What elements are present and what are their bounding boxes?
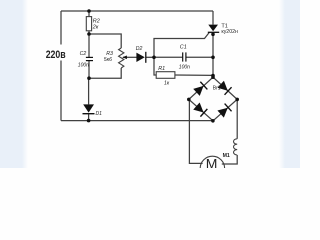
- svg-text:R1: R1: [158, 66, 165, 72]
- svg-text:100n: 100n: [78, 62, 89, 68]
- junction node bridge left vertex: [187, 98, 191, 102]
- junction node C1 / cathode line: [211, 56, 215, 60]
- junction node D1 / bottom rail: [87, 119, 91, 123]
- wire T1 anode from top rail: [212, 11, 214, 25]
- bridge diode top-to-right: [217, 80, 231, 94]
- svg-text:ку202н: ку202н: [221, 29, 238, 35]
- bridge Br1 diamond wires: [189, 77, 237, 121]
- svg-text:C1: C1: [180, 45, 187, 51]
- capacitor C1: [179, 45, 190, 71]
- wire T1 cathode to bridge top: [212, 32, 214, 77]
- wire R1 left lead: [154, 57, 156, 75]
- wire R2 bottom lead: [88, 31, 90, 34]
- junction node bridge right vertex: [235, 98, 239, 102]
- wire gate lead to T1: [154, 32, 209, 57]
- junction node bridge top vertex: [211, 75, 215, 79]
- junction node R2 / C2 / R3: [87, 32, 91, 36]
- wire R2 top lead: [88, 11, 90, 17]
- resistor R1: [156, 66, 175, 87]
- junction node T1 cathode: [211, 33, 215, 37]
- choke winding of motor M1: [233, 139, 237, 155]
- svg-text:5к6: 5к6: [104, 57, 112, 63]
- wire R3 bottom lead: [89, 68, 121, 78]
- junction node gate G: [152, 56, 156, 60]
- wire D1 bottom lead: [88, 114, 90, 121]
- wire C1 right lead: [186, 56, 213, 58]
- svg-text:2к: 2к: [92, 25, 99, 31]
- svg-text:C2: C2: [80, 51, 87, 57]
- svg-text:1к: 1к: [164, 81, 170, 87]
- wire left side 220V lower: [60, 61, 62, 121]
- wire R3 wiper to D2 anode: [123, 56, 137, 58]
- wire left side 220V upper: [60, 11, 62, 45]
- diode D1: [83, 104, 103, 117]
- wire D1 top lead: [88, 78, 90, 104]
- svg-text:M1: M1: [223, 153, 230, 159]
- wire bridge right vertex down to choke: [236, 99, 238, 138]
- bridge diode left-to-bottom: [193, 102, 207, 116]
- wire D2 cathode to node G: [146, 56, 154, 58]
- wire bridge left vertex down to motor: [189, 99, 202, 163]
- motor M1: [200, 153, 230, 180]
- bridge diode bottom-to-right: [217, 104, 231, 118]
- svg-text:D1: D1: [96, 111, 103, 117]
- capacitor C2: [78, 51, 93, 68]
- junction node C2 / R3 bottom: [87, 76, 91, 80]
- wire bottom rail: [61, 120, 213, 122]
- wire choke to motor right: [222, 155, 237, 164]
- svg-text:Br1: Br1: [213, 86, 221, 92]
- svg-text:M: M: [206, 156, 218, 168]
- wire node R2 to R3 top: [89, 34, 121, 48]
- wire R1 right lead: [175, 74, 213, 76]
- diode D2: [136, 46, 146, 63]
- svg-text:100n: 100n: [179, 65, 190, 71]
- bridge diode left-to-top: [193, 82, 207, 96]
- wire top rail: [61, 10, 213, 12]
- svg-text:D2: D2: [136, 46, 143, 52]
- junction node bridge bottom vertex: [211, 119, 215, 123]
- wire C2 bottom lead: [88, 61, 90, 78]
- potentiometer R3: [104, 48, 127, 68]
- thyristor T1: [208, 23, 238, 35]
- wire C2 top lead: [88, 34, 90, 57]
- resistor R2: [86, 17, 99, 31]
- svg-text:220в: 220в: [46, 49, 66, 61]
- junction node top rail / R2: [87, 9, 91, 13]
- junction node R1 / cathode line: [211, 74, 215, 78]
- wire C1 left lead: [154, 56, 182, 58]
